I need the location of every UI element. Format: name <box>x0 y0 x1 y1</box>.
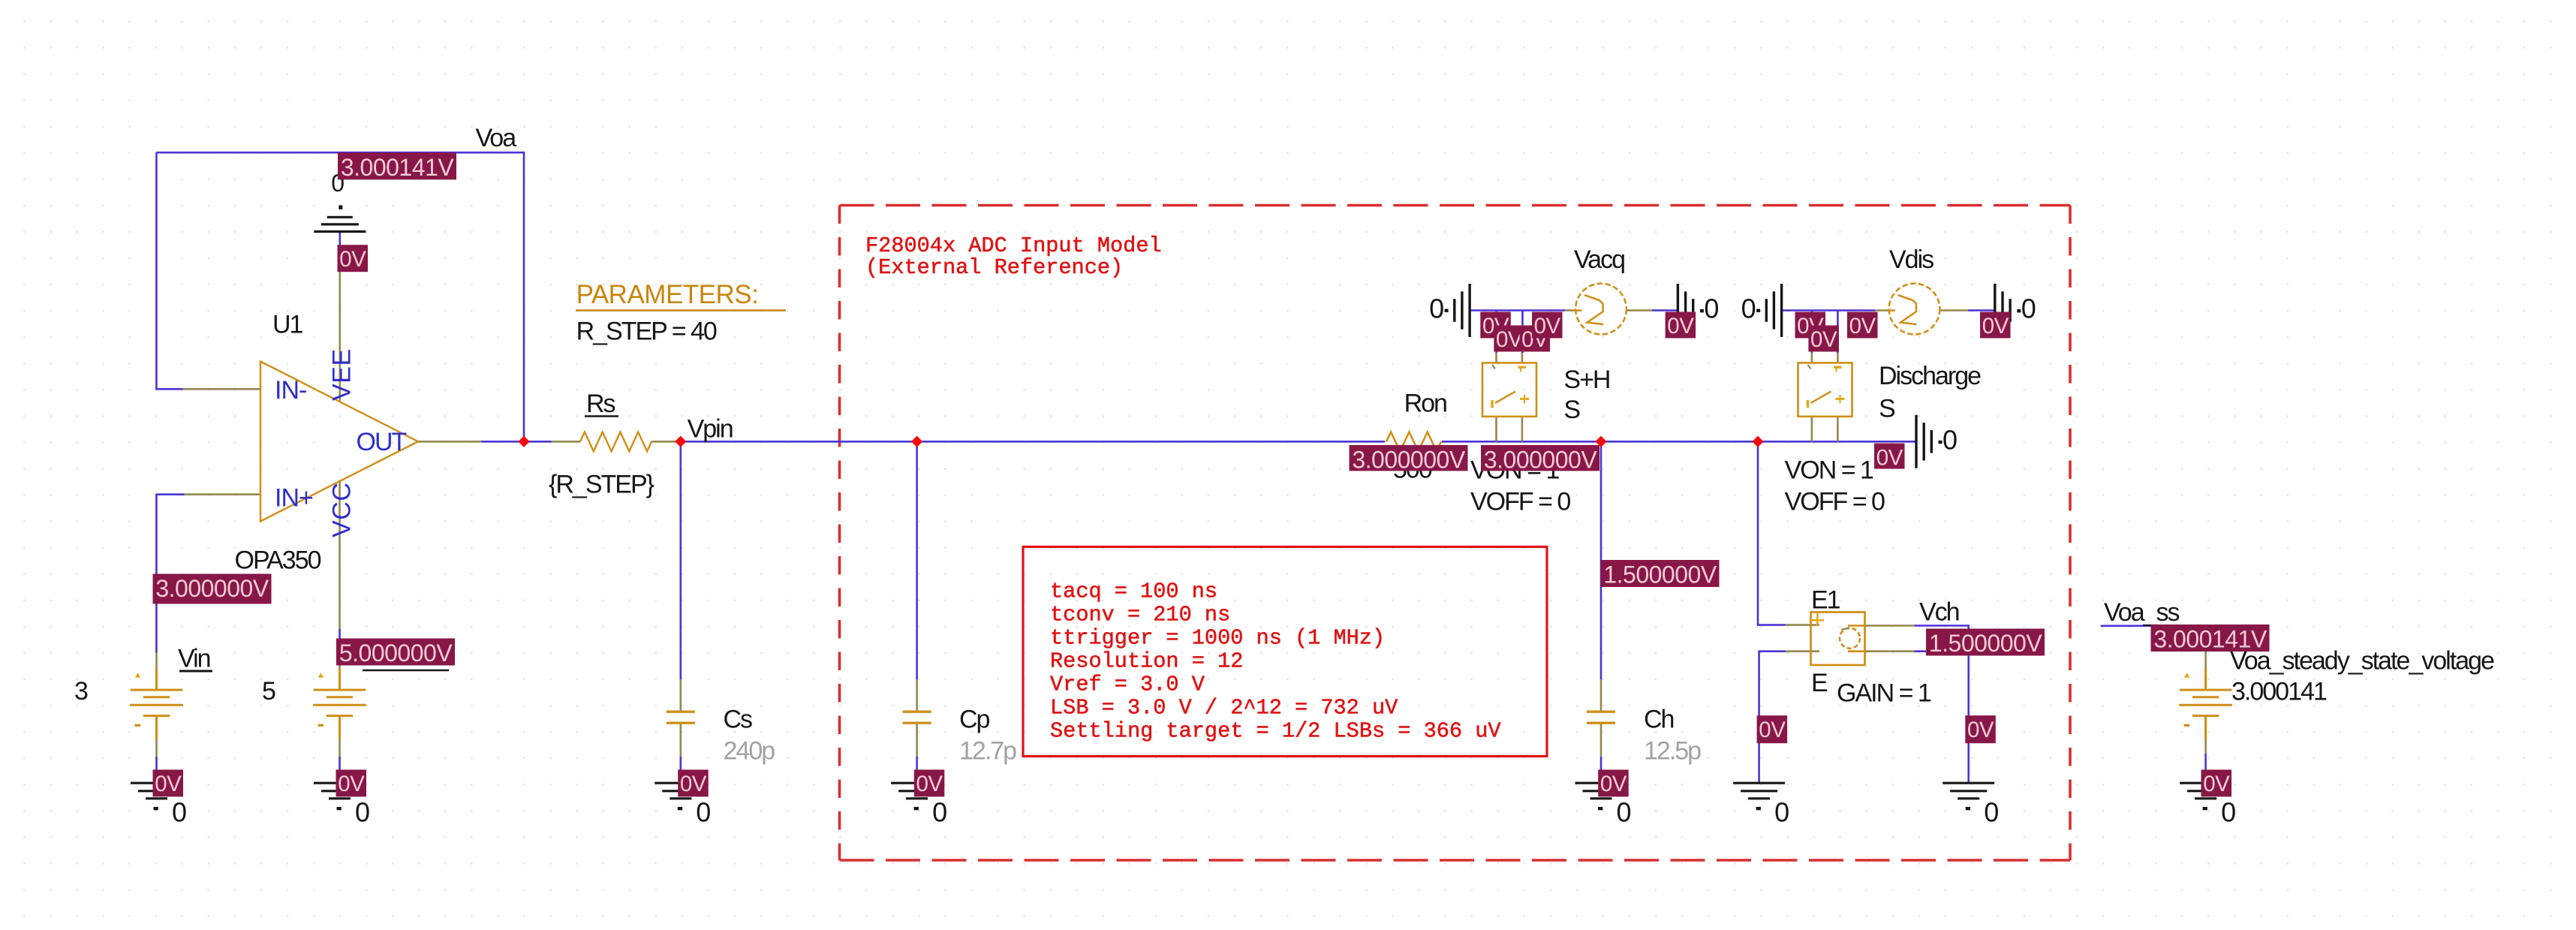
ground Vacq right <box>1678 284 1693 337</box>
red spec box <box>1023 547 1547 757</box>
svg-text:E1: E1 <box>1811 586 1840 615</box>
battery Vcc_opa <box>313 668 366 740</box>
pin E1 input minus <box>1786 650 1819 652</box>
ground Cs <box>655 783 706 799</box>
switch S+H <box>1482 363 1536 417</box>
svg-text:ttrigger = 1000 ns (1 MHz): ttrigger = 1000 ns (1 MHz) <box>1050 626 1385 651</box>
pin Vin battery top <box>155 653 158 691</box>
pin op-amp IN- <box>183 388 260 390</box>
wire E1 output Vch <box>1915 626 1969 784</box>
pin E1 input plus <box>1786 624 1819 626</box>
svg-text:PARAMETERS:: PARAMETERS: <box>576 280 759 309</box>
svg-text:0V: 0V <box>1600 772 1627 796</box>
voltage labels Discharge cluster <box>1795 312 1826 339</box>
pin op-amp IN+ <box>185 493 260 495</box>
svg-text:VON = 1: VON = 1 <box>1785 456 1873 485</box>
wire Voa_ss node <box>2101 625 2206 627</box>
battery Voa_steady_state_voltage <box>2179 668 2232 740</box>
wire S+H control tap right <box>1521 311 1524 354</box>
ground E1 output <box>1943 783 1994 799</box>
voltage label Cs-gnd 0V <box>678 769 709 796</box>
ground Vdis left <box>1766 284 1781 337</box>
pin Vdis left <box>1875 309 1889 312</box>
svg-text:0V: 0V <box>1982 314 2009 339</box>
svg-text:0V: 0V <box>1876 445 1903 470</box>
pin Discharge bottom left <box>1811 417 1813 441</box>
pin Voa_ss battery bottom <box>2204 716 2207 754</box>
svg-text:Resolution = 12: Resolution = 12 <box>1050 649 1243 674</box>
svg-text:E: E <box>1811 669 1828 697</box>
voltage label Voa 3.000141V <box>338 152 456 181</box>
voltage label VEE 0V <box>338 245 369 272</box>
wire IN+ input <box>156 495 184 653</box>
pin Cs top <box>679 679 682 712</box>
wire E1 minus input to ground <box>1759 652 1786 783</box>
pin Discharge bottom right <box>1837 417 1839 441</box>
designator Vin <box>178 645 212 673</box>
wire IN- feedback left <box>156 152 183 389</box>
ground above op-amp VEE <box>314 217 366 231</box>
designator Rs <box>585 390 618 418</box>
pin Discharge control right <box>1837 353 1839 363</box>
svg-text:0: 0 <box>1984 797 1999 828</box>
ground Vacq left <box>1455 284 1470 337</box>
pin op-amp VCC <box>339 480 341 630</box>
pin Voa_ss battery top <box>2204 640 2207 690</box>
svg-text:GAIN = 1: GAIN = 1 <box>1837 679 1931 708</box>
voltage label E1R-gnd 0V <box>1965 715 1996 743</box>
pin E1 output minus <box>1865 650 1915 652</box>
pin Cs bottom <box>679 723 682 757</box>
ADC model dashed boundary box <box>840 206 2071 861</box>
voltage label Ch 1.500000V <box>1601 560 1720 588</box>
voltage label Vacq right 0V <box>1666 312 1696 339</box>
svg-text:S+H: S+H <box>1563 366 1609 394</box>
capacitor Ch <box>1587 712 1615 723</box>
junction node 5 <box>1752 436 1763 447</box>
svg-text:tacq = 100 ns: tacq = 100 ns <box>1050 579 1217 604</box>
svg-text:5.000000V: 5.000000V <box>339 640 453 667</box>
svg-text:OUT: OUT <box>357 428 407 456</box>
svg-text:Ch: Ch <box>1644 706 1674 734</box>
svg-text:(External Reference): (External Reference) <box>865 255 1123 280</box>
svg-text:3.000000V: 3.000000V <box>1352 446 1465 473</box>
wire op-amp output to Rs <box>481 441 552 443</box>
pin Cp top <box>916 679 918 712</box>
pin Vcc battery top <box>339 653 341 690</box>
svg-text:0V: 0V <box>1810 327 1837 352</box>
controlled source E1 <box>1811 612 1865 666</box>
svg-text:Vref = 3.0 V: Vref = 3.0 V <box>1050 673 1205 697</box>
svg-text:0V: 0V <box>1967 718 1994 742</box>
resistor Rs zigzag <box>580 432 652 452</box>
voltage label Cp-gnd 0V <box>914 769 945 796</box>
wire VCC to supply <box>339 629 341 653</box>
ground Vcc_opa <box>314 783 366 799</box>
svg-text:240p: 240p <box>724 737 775 766</box>
svg-text:5: 5 <box>262 677 275 706</box>
wire Vin battery to ground <box>155 757 158 783</box>
svg-text:VOFF = 0: VOFF = 0 <box>1785 488 1885 516</box>
svg-text:0: 0 <box>1943 424 1958 455</box>
ground E1 input <box>1733 783 1785 799</box>
svg-text:Cs: Cs <box>724 706 753 734</box>
svg-text:0V: 0V <box>1849 314 1876 339</box>
svg-text:Vpin: Vpin <box>688 415 733 444</box>
wire Vacq rail left <box>1470 309 1565 312</box>
svg-text:0: 0 <box>1617 797 1632 828</box>
svg-text:VOFF = 0: VOFF = 0 <box>1470 488 1570 516</box>
svg-text:Vin: Vin <box>178 645 210 673</box>
wire Vdis rail left <box>1782 309 1875 312</box>
voltage label Ch-gnd 0V <box>1598 769 1629 796</box>
voltage label Ron left 3.000000V <box>1350 445 1468 474</box>
wire Ch top <box>1600 441 1602 679</box>
svg-text:Settling target = 1/2 LSBs = 3: Settling target = 1/2 LSBs = 366 uV <box>1050 719 1501 744</box>
svg-text:1.500000V: 1.500000V <box>1929 630 2042 657</box>
ground Vin <box>131 783 182 799</box>
ground Cp <box>891 783 943 799</box>
wire Vdis rail right <box>1968 309 1995 312</box>
svg-text:0: 0 <box>696 797 711 828</box>
wire junction to E1 plus input <box>1758 441 1786 625</box>
svg-text:Vdis: Vdis <box>1889 245 1934 274</box>
pin Vin battery bottom <box>155 716 158 757</box>
voltage label Vch 1.500000V <box>1926 629 2045 658</box>
pin Discharge control left <box>1811 353 1813 363</box>
ground Voa_ss <box>2180 783 2231 799</box>
voltage label Vin+ 3.000000V <box>153 574 272 604</box>
svg-text:LSB = 3.0 V / 2^12 = 732 uV: LSB = 3.0 V / 2^12 = 732 uV <box>1050 696 1398 721</box>
svg-text:Cp: Cp <box>959 706 990 734</box>
pin Vacq right <box>1627 309 1652 312</box>
voltage label E1L-gnd 0V <box>1757 715 1788 743</box>
svg-text:{R_STEP}: {R_STEP} <box>549 471 655 499</box>
wire Vpin down to Cs <box>679 441 682 679</box>
svg-text:0V: 0V <box>339 247 366 272</box>
wire Cs bottom to ground <box>679 757 682 783</box>
source Vdis <box>1889 284 1940 335</box>
wire S+H control tap left <box>1495 311 1497 354</box>
capacitor Cp <box>903 712 931 723</box>
wire Voa_ss battery to ground <box>2204 754 2207 783</box>
svg-text:S: S <box>1879 395 1895 423</box>
svg-text:0V: 0V <box>1759 718 1786 742</box>
svg-text:Discharge: Discharge <box>1879 362 1981 390</box>
svg-text:0: 0 <box>932 797 947 828</box>
svg-text:0: 0 <box>1741 293 1756 324</box>
switch Discharge <box>1798 363 1852 417</box>
svg-text:0: 0 <box>1704 293 1719 324</box>
svg-text:0: 0 <box>355 797 370 828</box>
svg-text:IN-: IN- <box>275 376 306 405</box>
svg-text:Voa_steady_state_voltage: Voa_steady_state_voltage <box>2230 647 2494 676</box>
svg-text:R_STEP = 40: R_STEP = 40 <box>576 318 717 346</box>
op-amp U1 triangle <box>260 362 418 522</box>
svg-text:Voa_ss: Voa_ss <box>2104 598 2180 627</box>
junction node 3 <box>911 436 922 447</box>
wire Cp bottom to ground <box>916 757 918 783</box>
svg-text:0V: 0V <box>1667 314 1694 339</box>
pin S+H bottom left <box>1495 417 1497 441</box>
svg-text:3.000141V: 3.000141V <box>2153 626 2267 653</box>
wire Voa feedback top <box>156 152 524 441</box>
resistor Ron zigzag <box>1386 432 1441 452</box>
svg-text:U1: U1 <box>272 311 303 339</box>
pin E1 output plus <box>1865 625 1915 627</box>
svg-text:0: 0 <box>1429 293 1444 324</box>
svg-text:0V: 0V <box>1534 314 1561 339</box>
svg-text:3.000141V: 3.000141V <box>341 154 454 181</box>
pin Rs left lead <box>552 441 580 443</box>
svg-text:0V: 0V <box>155 772 182 796</box>
svg-text:S: S <box>1563 396 1580 424</box>
svg-text:IN+: IN+ <box>275 484 313 513</box>
wire Vcc battery to ground <box>339 757 341 783</box>
voltage label Ron right 3.000000V <box>1481 445 1599 474</box>
voltage labels S+H cluster <box>1480 312 1511 339</box>
wire E1 output minus <box>1915 650 1969 652</box>
source Vacq <box>1575 284 1627 335</box>
svg-text:0: 0 <box>2021 293 2036 324</box>
wire VEE to ground <box>339 232 341 248</box>
svg-text:Vacq: Vacq <box>1574 245 1624 274</box>
battery Vin <box>130 668 183 740</box>
wire node Vpin to Ron <box>678 441 1385 443</box>
wire Ron to discharge ground rail <box>1442 441 1916 443</box>
svg-text:12.5p: 12.5p <box>1644 737 1701 766</box>
voltage label Discharge-gnd 0V <box>1874 444 1905 471</box>
voltage label Voa_ss 3.000141V <box>2151 625 2270 653</box>
wire Discharge control tap left <box>1811 311 1813 354</box>
pin S+H bottom right <box>1521 417 1524 441</box>
pin S+H control left <box>1495 353 1497 363</box>
svg-text:Voa: Voa <box>476 124 517 152</box>
voltage label Voass-gnd 0V <box>2201 769 2232 796</box>
pin op-amp OUT <box>418 441 481 443</box>
svg-text:tconv = 210 ns: tconv = 210 ns <box>1050 603 1230 628</box>
svg-text:3.000000V: 3.000000V <box>155 575 269 602</box>
pin Cp bottom <box>916 723 918 757</box>
svg-text:OPA350: OPA350 <box>235 546 321 575</box>
pin S+H control right <box>1521 353 1524 363</box>
svg-text:0: 0 <box>2221 797 2236 828</box>
svg-text:0V: 0V <box>1496 327 1523 352</box>
ground Ch <box>1575 783 1627 799</box>
svg-text:0: 0 <box>172 797 187 828</box>
svg-text:3: 3 <box>74 677 88 706</box>
svg-text:Ron: Ron <box>1404 390 1446 418</box>
pin Rs right lead <box>652 441 678 443</box>
pin Vcc battery bottom <box>339 716 341 757</box>
pin op-amp VEE <box>339 248 341 402</box>
wire Ch bottom to ground <box>1600 757 1602 783</box>
svg-text:0V: 0V <box>680 772 707 796</box>
svg-text:VEE: VEE <box>328 348 357 401</box>
junction node 4 <box>1595 436 1606 447</box>
junction node 1 <box>518 436 529 447</box>
designator Vcc_opa underline <box>363 670 449 671</box>
ground Vdis right <box>1995 284 2010 337</box>
svg-text:0V: 0V <box>916 772 943 796</box>
wire Cp top <box>916 441 918 679</box>
svg-text:3.000000V: 3.000000V <box>1484 446 1597 473</box>
svg-text:0V: 0V <box>2203 772 2230 796</box>
svg-text:0V: 0V <box>338 772 365 796</box>
capacitor Cs <box>667 712 695 723</box>
pin Vdis right <box>1940 309 1968 312</box>
voltage label Vdis right 0V <box>1980 312 2011 339</box>
voltage label Vcc 5.000000V <box>336 639 455 667</box>
svg-text:12.7p: 12.7p <box>959 737 1016 766</box>
title PARAMETERS <box>576 280 786 311</box>
svg-text:Vch: Vch <box>1919 598 1959 627</box>
svg-text:VCC: VCC <box>328 482 357 537</box>
voltage label Vin-gnd 0V <box>153 769 184 796</box>
svg-text:1.500000V: 1.500000V <box>1603 561 1717 588</box>
svg-text:0: 0 <box>1774 797 1789 828</box>
pin Ch top <box>1600 679 1602 712</box>
pin Ch bottom <box>1600 723 1602 757</box>
ground Discharge switch <box>1916 415 1931 468</box>
svg-text:Rs: Rs <box>586 390 615 418</box>
pin Vacq left <box>1565 309 1575 312</box>
wire Discharge control tap right <box>1837 311 1839 354</box>
voltage label Vcc-gnd 0V <box>336 769 367 796</box>
junction node 2 <box>675 436 686 447</box>
svg-text:3.000141: 3.000141 <box>2231 678 2327 706</box>
wire Vacq rail right <box>1652 309 1678 312</box>
